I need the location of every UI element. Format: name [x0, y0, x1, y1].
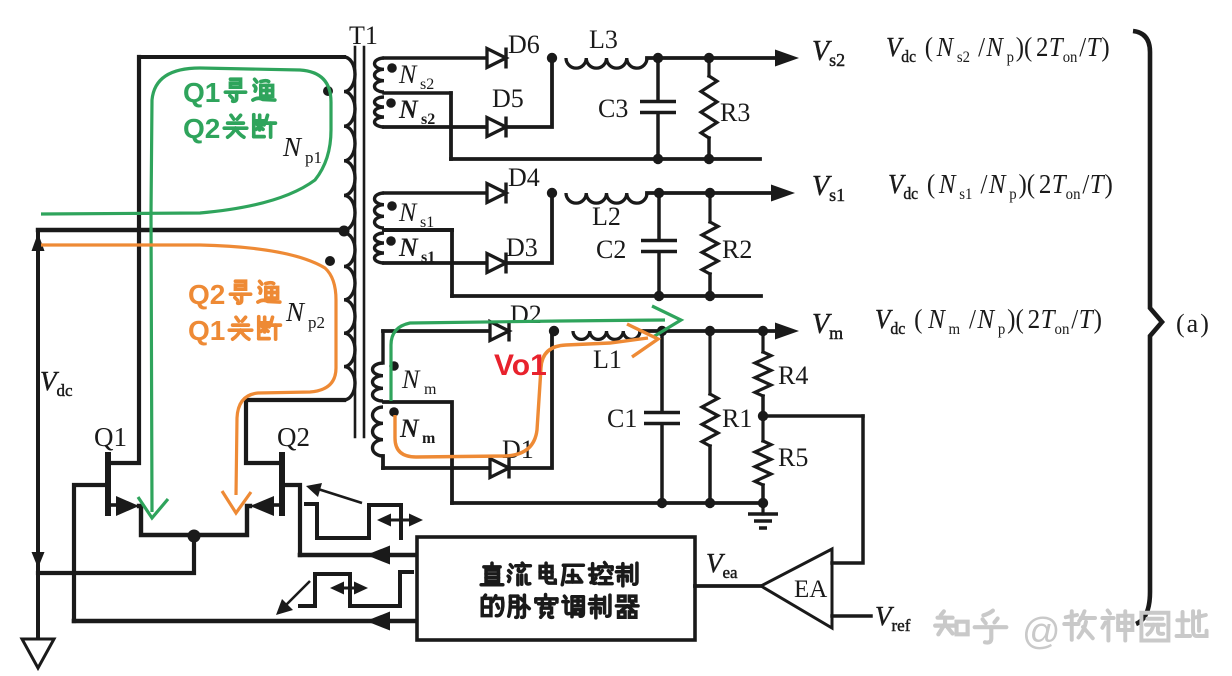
wire Vdc rail — [36, 230, 40, 639]
svg-text:): ) — [1105, 169, 1113, 199]
capacitor C1 — [660, 331, 664, 412]
svg-text:D4: D4 — [508, 163, 540, 192]
junction dot C2 bottom — [654, 291, 664, 301]
svg-text:(: ( — [914, 304, 922, 334]
polarity dot Ns1 upper — [387, 201, 397, 211]
arrow output Vm — [775, 323, 799, 340]
arrow down on Vdc rail bottom — [32, 552, 45, 568]
secondary winding Ns2 upper — [384, 56, 487, 59]
wire Vea from block — [695, 584, 761, 588]
svg-text:Vo1: Vo1 — [494, 349, 547, 382]
svg-text:)(: )( — [1007, 304, 1024, 334]
svg-text:N: N — [936, 32, 955, 62]
svg-text:2: 2 — [1039, 169, 1051, 199]
wire emitters to rail — [38, 536, 194, 573]
wire D1 to junction — [509, 331, 552, 468]
svg-text:R5: R5 — [778, 443, 808, 472]
polarity dot Ns2 upper — [387, 63, 397, 73]
polarity dot Ns1 lower — [386, 236, 396, 246]
svg-text:)(: )( — [1016, 32, 1033, 62]
svg-text:on: on — [1055, 321, 1070, 339]
svg-text:C2: C2 — [596, 235, 626, 264]
junction dot R4 R5 — [758, 411, 768, 421]
ground symbol (open triangle) — [22, 639, 54, 668]
diode D2 — [490, 322, 509, 341]
svg-text:@: @ — [1022, 611, 1061, 653]
inductor L3 — [566, 58, 647, 68]
junction dot R1 top — [705, 326, 715, 336]
svg-text:p: p — [1007, 48, 1015, 66]
svg-text:)(: )( — [1019, 169, 1036, 199]
svg-text:Q2: Q2 — [183, 113, 220, 144]
wire L2 to output — [647, 191, 771, 195]
svg-text:/: / — [981, 169, 989, 199]
svg-text:N: N — [398, 95, 419, 124]
svg-text:Q1: Q1 — [94, 422, 127, 452]
svg-text:on: on — [1066, 186, 1081, 204]
arrow on Q1 drive line — [366, 612, 390, 631]
arrow output Vs2 — [775, 50, 799, 67]
svg-text:2: 2 — [1036, 32, 1048, 62]
svg-text:N: N — [285, 297, 306, 327]
junction dot primary center tap — [339, 226, 350, 237]
diode D4 — [487, 184, 506, 203]
diagonal arrow to Q2 base — [318, 489, 362, 503]
polarity dot Ns2 lower — [386, 98, 396, 108]
resistor R1 — [708, 331, 711, 394]
center tap wire Nm — [384, 402, 452, 503]
wire Ns1 lower to D3 — [384, 261, 487, 265]
svg-text:(: ( — [925, 32, 933, 62]
junction dot C3 top — [653, 53, 663, 63]
svg-text:Q2: Q2 — [188, 279, 225, 310]
wire Nm top lead to D2 — [383, 329, 490, 333]
op-amp EA triangle — [761, 549, 832, 628]
double arrow on Q2 waveform — [381, 519, 419, 522]
svg-text:R2: R2 — [722, 235, 752, 264]
center tap wire Ns1 — [450, 230, 454, 296]
arrow up on Vdc rail top — [32, 233, 45, 251]
green flow arrow through D2 L1 — [391, 320, 665, 401]
primary center tap wire — [38, 228, 344, 232]
svg-text:): ) — [1094, 304, 1102, 334]
svg-text:L2: L2 — [592, 202, 621, 231]
transistor Q2 emitter arrow — [272, 503, 282, 507]
secondary winding Ns1 lower — [384, 228, 452, 232]
junction dot D2 out — [549, 326, 559, 336]
svg-text:D2: D2 — [510, 300, 542, 329]
wire Q2 emitter — [194, 506, 250, 535]
resistor R2 — [708, 193, 711, 222]
wire L1 to output — [640, 329, 775, 333]
svg-text:N: N — [398, 60, 418, 89]
svg-text:N: N — [988, 169, 1007, 199]
wire L3 to output — [647, 56, 775, 60]
svg-text:N: N — [398, 198, 418, 227]
wire R4R5 junction to EA — [763, 414, 863, 418]
svg-text:EA: EA — [794, 576, 827, 603]
PWM block text line1 — [481, 563, 503, 585]
polarity dot Nm upper — [389, 361, 399, 371]
primary winding Np1 — [139, 55, 344, 59]
bottom rail Ns1 section — [452, 294, 761, 298]
junction dot D6 out — [547, 53, 557, 63]
svg-text:p2: p2 — [308, 313, 325, 332]
svg-text:m: m — [422, 430, 436, 447]
arrow on Q2 drive line — [366, 546, 390, 565]
svg-text:T: T — [1079, 304, 1095, 334]
svg-text:L3: L3 — [589, 25, 618, 54]
double arrow on Q1 waveform — [334, 587, 364, 590]
svg-text:R1: R1 — [722, 404, 752, 433]
junction dot C1 bottom — [657, 498, 667, 508]
svg-text:p: p — [998, 321, 1006, 339]
bottom rail Nm section — [452, 501, 763, 505]
diode D6 — [487, 49, 506, 68]
PWM block text line2 — [482, 595, 503, 616]
inductor L2 — [566, 193, 647, 203]
svg-text:N: N — [985, 32, 1004, 62]
svg-text:Q1: Q1 — [183, 77, 220, 108]
polarity dot Np1 — [323, 86, 333, 96]
diode D1 — [490, 459, 509, 478]
wire EA ref input — [832, 614, 871, 618]
wire D5 to junction — [506, 58, 552, 127]
svg-text:T1: T1 — [349, 21, 378, 50]
wire Q2 collector from Np2 — [246, 400, 344, 463]
wire D3 to junction — [506, 193, 552, 263]
primary winding Np2 — [344, 233, 355, 400]
svg-text:N: N — [927, 304, 946, 334]
svg-text:R4: R4 — [778, 361, 808, 390]
green arrowhead at Q1 — [138, 497, 168, 518]
svg-text:N: N — [976, 304, 995, 334]
wire Q1 emitter — [139, 506, 194, 535]
resistor R5 — [761, 416, 764, 441]
arrow output Vs1 — [771, 185, 795, 202]
svg-text:T: T — [1087, 32, 1102, 62]
junction dot D4 out — [547, 188, 557, 198]
svg-text:(: ( — [927, 169, 935, 199]
junction dot R3 bottom — [704, 154, 714, 164]
polarity dot Nm lower — [389, 407, 399, 417]
big bracket — [1133, 31, 1162, 624]
capacitor C3 — [656, 58, 660, 101]
junction dot C3 bottom — [653, 154, 663, 164]
orange flow arrow through D1 L1 — [395, 338, 648, 457]
junction dot R1 bottom — [705, 498, 715, 508]
svg-text:s2: s2 — [957, 48, 970, 66]
diode D5 — [487, 118, 506, 137]
wire Q1 collector from box — [108, 57, 139, 463]
junction dot emitters — [188, 530, 201, 543]
watermark zhihu — [935, 611, 967, 634]
diode D3 — [487, 254, 506, 273]
resistor R4 — [761, 331, 764, 352]
junction dot C1 top — [657, 326, 667, 336]
svg-text:s1: s1 — [959, 186, 972, 204]
bottom rail Ns2 section — [451, 157, 760, 161]
transformer T1 core — [354, 47, 357, 437]
polarity dot Np2 — [325, 256, 335, 266]
green loop Q1 on — [41, 68, 331, 512]
wire Nm lower to D1 — [383, 466, 490, 470]
PWM controller block — [417, 537, 695, 640]
waveform symbol Q2 drive — [306, 504, 401, 538]
svg-text:N: N — [398, 233, 419, 262]
svg-text:/: / — [978, 32, 986, 62]
junction dot C2 top — [654, 188, 664, 198]
svg-text:m: m — [949, 321, 961, 339]
svg-text:(a): (a) — [1176, 309, 1211, 338]
secondary winding Nm column — [381, 331, 384, 363]
wire EA inverting input — [832, 416, 863, 563]
formula Vs1 — [888, 169, 1113, 203]
orange arrowhead at Q2 — [222, 491, 251, 513]
svg-text:D5: D5 — [492, 84, 524, 113]
secondary winding Ns2 lower — [384, 91, 451, 94]
ground symbol under R5 — [761, 503, 764, 514]
svg-text:C1: C1 — [607, 404, 637, 433]
resistor R3 — [707, 58, 710, 76]
capacitor C2 — [657, 193, 661, 240]
inductor L1 — [573, 331, 640, 339]
transistor Q2 bar — [279, 455, 285, 513]
svg-text:L1: L1 — [593, 345, 622, 374]
svg-text:R3: R3 — [720, 98, 750, 127]
orange curve Q2 on — [41, 245, 336, 495]
junction dot R4 top — [758, 326, 768, 336]
transistor Q1 emitter arrow — [108, 503, 118, 507]
svg-text:on: on — [1063, 48, 1078, 66]
formula Vs2 — [886, 32, 1110, 66]
svg-text:N: N — [401, 365, 421, 394]
waveform symbol Q1 drive — [300, 572, 412, 606]
svg-text:N: N — [938, 169, 957, 199]
svg-text:m: m — [424, 381, 437, 398]
wire drive to Q1 base — [74, 619, 417, 624]
svg-text:2: 2 — [1028, 304, 1041, 334]
wire Ns2 lower to D5 — [384, 125, 487, 129]
svg-text:D6: D6 — [508, 30, 540, 59]
svg-text:/: / — [969, 304, 977, 334]
svg-text:): ) — [1101, 32, 1109, 62]
svg-text:Q2: Q2 — [277, 422, 310, 452]
svg-text:T: T — [1090, 169, 1105, 199]
svg-text:N: N — [282, 132, 303, 162]
junction dot R5 bottom — [758, 498, 768, 508]
svg-text:p: p — [1009, 186, 1017, 204]
junction dot R3 top — [704, 53, 714, 63]
svg-text:p1: p1 — [305, 148, 322, 167]
transistor Q1 bar — [105, 455, 111, 513]
center tap wire Ns2 — [449, 93, 453, 159]
wire Q1 base — [74, 485, 108, 621]
svg-text:N: N — [399, 414, 420, 443]
wire drive to Q2 base — [300, 553, 417, 558]
junction dot R2 bottom — [705, 291, 715, 301]
svg-text:s2: s2 — [420, 76, 434, 93]
formula Vm — [875, 304, 1102, 338]
wire Q2 base — [282, 485, 300, 555]
junction dot R2 top — [705, 188, 715, 198]
svg-text:D3: D3 — [506, 233, 538, 262]
secondary winding Ns1 upper — [384, 191, 487, 194]
svg-text:C3: C3 — [598, 94, 628, 123]
diagonal arrow to Q1 drive — [286, 581, 310, 605]
svg-text:Q1: Q1 — [188, 315, 225, 346]
